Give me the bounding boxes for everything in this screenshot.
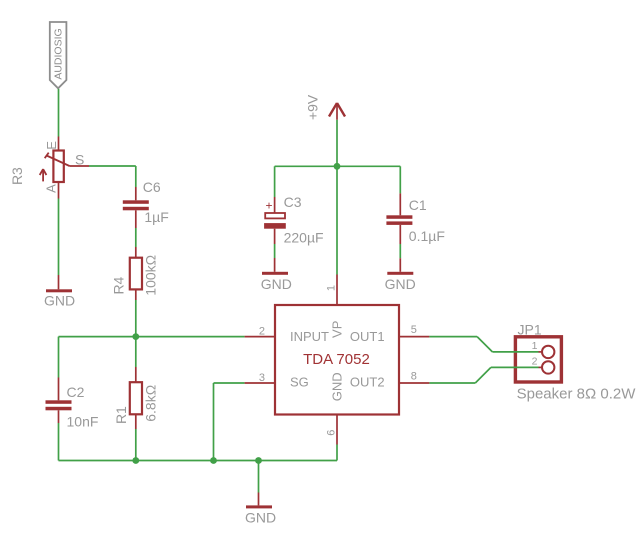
- svg-text:C2: C2: [67, 384, 85, 400]
- svg-text:GND: GND: [245, 509, 276, 525]
- svg-text:220µF: 220µF: [284, 230, 324, 246]
- svg-text:GND: GND: [330, 372, 345, 401]
- ground symbol below R3: [44, 275, 75, 308]
- svg-text:100kΩ: 100kΩ: [142, 255, 158, 296]
- capacitor C2: [46, 378, 72, 424]
- svg-text:0.1µF: 0.1µF: [409, 228, 445, 244]
- svg-text:E: E: [44, 141, 59, 150]
- wire C3 to GND: [274, 244, 276, 258]
- svg-text:C3: C3: [284, 194, 302, 210]
- wire from AUDIOSIG to R3 pin E: [58, 89, 60, 137]
- svg-text:R1: R1: [113, 406, 129, 424]
- wire R4 to node row: [135, 300, 137, 337]
- svg-text:+9V: +9V: [305, 94, 321, 120]
- wire supply to C3: [274, 166, 276, 197]
- svg-text:2: 2: [532, 356, 538, 368]
- svg-text:A: A: [44, 184, 59, 193]
- svg-text:2: 2: [259, 326, 265, 338]
- resistor R4: [130, 247, 142, 300]
- svg-text:10nF: 10nF: [67, 413, 99, 429]
- wire OUT1 to JP1 pin 1: [429, 337, 542, 352]
- svg-text:8: 8: [411, 371, 417, 383]
- svg-text:5: 5: [411, 324, 417, 336]
- svg-text:R3: R3: [9, 167, 25, 185]
- wire supply to C1: [399, 166, 401, 193]
- wire SG branch: [214, 383, 245, 461]
- wire C1 to GND: [399, 244, 401, 258]
- svg-text:6: 6: [325, 430, 337, 436]
- svg-text:R4: R4: [110, 276, 126, 294]
- junction GND drop: [255, 457, 262, 464]
- wire supply node to IC pin 1: [336, 166, 338, 274]
- wire node row to IC pin 2: [59, 336, 245, 338]
- svg-text:3: 3: [259, 372, 265, 384]
- svg-text:SG: SG: [290, 375, 309, 390]
- svg-text:1µF: 1µF: [144, 209, 168, 225]
- supply rail wire: [275, 165, 401, 167]
- junction node at R4 bottom: [132, 333, 139, 340]
- ground symbol bottom center: [245, 493, 276, 526]
- ground symbol below C3: [261, 258, 292, 292]
- wire R3 wiper S to C6: [89, 166, 136, 187]
- svg-text:GND: GND: [261, 276, 292, 292]
- junction SG branch: [210, 457, 217, 464]
- op-amp IC U1 TDA7052: [245, 275, 430, 445]
- svg-text:+: +: [265, 199, 272, 213]
- svg-text:S: S: [75, 152, 84, 168]
- resistor R1: [130, 367, 142, 429]
- svg-text:C6: C6: [143, 179, 161, 195]
- electrolytic capacitor C3: [264, 197, 286, 244]
- svg-text:6.8kΩ: 6.8kΩ: [143, 385, 159, 422]
- capacitor C6: [123, 187, 149, 228]
- svg-text:1: 1: [532, 340, 538, 352]
- junction R1 bottom: [132, 457, 139, 464]
- bottom rail wire: [59, 460, 338, 462]
- svg-text:OUT2: OUT2: [350, 375, 385, 390]
- wire C2 to bottom rail: [58, 423, 60, 461]
- svg-text:VP: VP: [330, 321, 345, 338]
- wire to bottom ground: [258, 461, 260, 493]
- wire R3 pin A to GND: [58, 199, 60, 276]
- potentiometer R3: [40, 137, 89, 199]
- svg-text:JP1: JP1: [518, 322, 542, 338]
- svg-text:C1: C1: [409, 197, 427, 213]
- svg-text:TDA 7052: TDA 7052: [303, 351, 370, 368]
- svg-text:GND: GND: [385, 276, 416, 292]
- power symbol +9V: [329, 103, 345, 120]
- wire OUT2 to JP1 pin 2: [429, 367, 542, 383]
- svg-text:Speaker 8Ω 0.2W: Speaker 8Ω 0.2W: [517, 385, 637, 402]
- ground symbol below C1: [385, 258, 416, 292]
- connector JP1: [515, 337, 561, 382]
- svg-text:1: 1: [326, 285, 338, 291]
- junction supply node: [334, 163, 341, 170]
- wire C6 to R4: [135, 228, 137, 247]
- wire R1 to bottom rail: [135, 429, 137, 461]
- svg-text:AUDIOSIG: AUDIOSIG: [53, 28, 65, 79]
- supply flag AUDIOSIG: [50, 22, 67, 88]
- wire node row down to R1: [135, 337, 137, 367]
- wire node row down to C2: [58, 337, 60, 378]
- svg-text:OUT1: OUT1: [350, 329, 385, 344]
- svg-text:INPUT: INPUT: [290, 329, 329, 344]
- capacitor C1: [386, 193, 412, 244]
- wire IC pin 6 to bottom rail: [336, 445, 338, 461]
- wire +9V to supply node: [336, 120, 338, 167]
- svg-text:GND: GND: [44, 292, 75, 308]
